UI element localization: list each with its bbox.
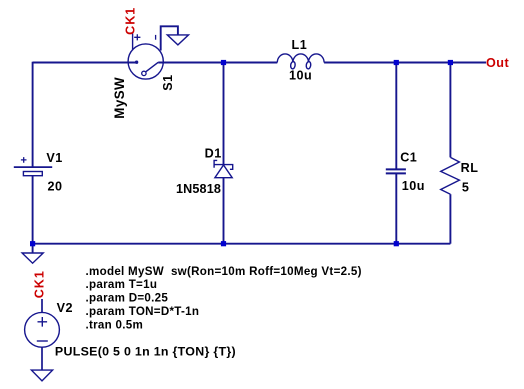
junction top rail at C1 [394, 60, 399, 65]
label S1 [161, 74, 175, 90]
label V1 [46, 151, 62, 165]
svg-text:CK1: CK1 [32, 270, 46, 298]
wire left rail upper (corner to V1) [32, 62, 34, 167]
wire bottom rail [33, 243, 451, 245]
voltage source V2 [25, 299, 60, 370]
wire D1 branch upper [223, 63, 225, 165]
svg-text:PULSE(0 5 0 1n 1n {TON} {T}): PULSE(0 5 0 1n 1n {TON} {T}) [55, 345, 236, 359]
diode D1 schottky [214, 160, 233, 177]
label L1 [292, 38, 308, 52]
label PULSE [55, 345, 236, 359]
svg-text:CK1: CK1 [124, 7, 138, 35]
directive .model [86, 265, 362, 278]
switch S1 symbol [128, 34, 163, 80]
switch S1 open contact [142, 71, 146, 75]
wire RL branch upper [449, 63, 451, 158]
svg-text:D1: D1 [205, 146, 222, 160]
svg-text:.param T=1u: .param T=1u [86, 278, 158, 291]
label 10u at L1 [289, 69, 312, 83]
label 1N5818 [176, 182, 221, 196]
svg-text:.model MySW sw(Ron=10m Roff=1: .model MySW sw(Ron=10m Roff=10Meg Vt=2.5… [86, 265, 362, 278]
switch minus marker [155, 35, 157, 40]
svg-text:1N5818: 1N5818 [176, 182, 221, 196]
svg-text:S1: S1 [161, 74, 175, 90]
V2 minus marker [37, 340, 48, 342]
wire switch control to ground [161, 26, 178, 50]
switch S1 left contact dot [135, 61, 138, 64]
directive .param TON [86, 305, 200, 318]
svg-text:.param TON=D*T-1n: .param TON=D*T-1n [86, 305, 200, 318]
directive .tran [86, 318, 144, 331]
switch plus marker [134, 34, 140, 40]
resistor RL zigzag [441, 157, 460, 194]
svg-text:.tran 0.5m: .tran 0.5m [86, 318, 144, 331]
label CK1 at V2 [32, 270, 46, 298]
directive .param T [86, 278, 158, 291]
wire C1 branch upper [395, 63, 397, 170]
svg-text:RL: RL [461, 161, 479, 175]
wire C1 branch lower [395, 173, 397, 243]
svg-text:V1: V1 [46, 151, 62, 165]
ground at V2 [31, 370, 52, 381]
V1 plus marker [21, 157, 27, 163]
wire D1 branch lower [223, 178, 225, 244]
junction top rail at RL [448, 60, 453, 65]
svg-text:5: 5 [462, 181, 470, 195]
inductor L1 [277, 54, 324, 69]
wire ground stub V1 [32, 244, 34, 253]
wire RL branch lower [449, 194, 451, 244]
wire left rail lower (V1 to bottom rail) [32, 176, 34, 244]
label MySW [112, 77, 127, 119]
ground at V1 [22, 253, 43, 263]
battery V1 symbol [14, 167, 52, 176]
junction bottom rail at D1 [221, 241, 226, 246]
capacitor C1 [386, 169, 406, 173]
wire top rail right (inductor to Out) [324, 62, 486, 64]
V2 plus marker [38, 317, 48, 327]
label RL [461, 161, 479, 175]
junction top rail at D1 [221, 60, 226, 65]
label 20 [48, 180, 63, 194]
wire top rail left (V1 to switch) [33, 62, 136, 64]
junction bottom rail at C1 [394, 241, 399, 246]
label C1 [400, 151, 417, 165]
svg-text:10u: 10u [402, 179, 425, 193]
label 5 [462, 181, 470, 195]
svg-text:V2: V2 [57, 301, 73, 315]
svg-text:Out: Out [486, 56, 509, 70]
svg-text:.param D=0.25: .param D=0.25 [86, 292, 169, 305]
junction bottom rail at ground [30, 241, 35, 246]
directive .param D [86, 292, 169, 305]
label V2 [57, 301, 73, 315]
label D1 [205, 146, 222, 160]
svg-text:L1: L1 [292, 38, 308, 52]
svg-text:MySW: MySW [112, 77, 127, 119]
svg-text:10u: 10u [289, 69, 312, 83]
wire top rail middle (switch to inductor) [158, 62, 277, 64]
svg-text:20: 20 [48, 180, 63, 194]
svg-text:C1: C1 [400, 151, 417, 165]
ground at switch control [167, 35, 188, 45]
label CK1 at switch [124, 7, 138, 35]
label 10u at C1 [402, 179, 425, 193]
label Out [486, 56, 509, 70]
